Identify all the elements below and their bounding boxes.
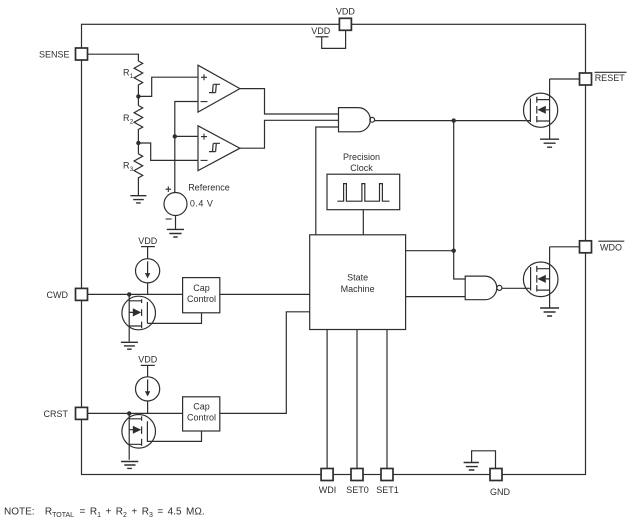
svg-text:Machine: Machine	[341, 284, 375, 294]
svg-text:SENSE: SENSE	[39, 49, 70, 59]
wire U2 output to NAND1 input 2	[240, 120, 339, 148]
svg-text:3: 3	[130, 166, 134, 173]
wire RESET pin to Q1 drain	[550, 78, 580, 80]
pin WDI	[321, 469, 333, 481]
ground below Q2	[540, 308, 559, 316]
pin SET0	[351, 469, 363, 481]
svg-text:VDD: VDD	[138, 236, 158, 246]
internal ground symbol near GND pin	[464, 463, 479, 471]
node junction reset line	[452, 118, 456, 122]
ground below Q1	[540, 139, 559, 147]
svg-text:SET1: SET1	[376, 485, 399, 495]
wire cap control 1 to state machine	[220, 293, 310, 295]
svg-text:Control: Control	[187, 294, 216, 304]
wire NAND2 output to Q2 gate	[502, 287, 530, 289]
pin SENSE	[76, 48, 88, 60]
wire internal ground to GND pin	[472, 451, 496, 469]
pin SET1	[381, 469, 393, 481]
pin GND	[490, 469, 502, 481]
svg-text:1: 1	[130, 73, 134, 80]
pin WDO	[580, 241, 592, 253]
current source I1	[136, 259, 160, 283]
wire state machine to SET1 pin	[386, 330, 388, 469]
svg-text:2: 2	[130, 119, 134, 126]
node junction reference to U2 +	[173, 134, 177, 138]
svg-text:SET0: SET0	[346, 485, 369, 495]
svg-text:State: State	[347, 272, 368, 282]
wire clock to state machine	[362, 210, 364, 235]
resistor R1	[134, 61, 143, 96]
op-amp U2 comparator	[198, 126, 240, 171]
ground below Q3	[121, 342, 138, 349]
transistor Q4 CRST MOSFET	[122, 415, 156, 449]
wire NAND1 third input from state machine	[316, 127, 339, 235]
wire SENSE to R1	[88, 54, 139, 61]
wire I1 to CWD node	[147, 283, 149, 295]
wire junction to state machine	[406, 250, 454, 252]
wire WDO pin to Q2 drain	[550, 246, 580, 248]
svg-text:VDD: VDD	[311, 26, 331, 36]
wire state machine to WDI pin	[326, 330, 328, 469]
resistor R3	[134, 154, 143, 196]
clock waveform	[337, 184, 389, 202]
wire U1 output to NAND1 input 1	[240, 89, 339, 114]
node junction CRST	[127, 411, 131, 415]
wire junction down to NAND2 input 1	[454, 251, 466, 279]
node junction R2/R3 tap	[136, 141, 140, 145]
transistor Q1 RESET MOSFET	[524, 93, 558, 127]
wire cap control 2 to state machine	[220, 312, 310, 414]
wire VDD to current source I2	[147, 365, 149, 376]
ground below R3	[130, 196, 146, 203]
svg-text:CWD: CWD	[47, 290, 69, 300]
svg-text:Precision: Precision	[343, 152, 380, 162]
wire VDD net to VDD pin	[322, 30, 346, 48]
svg-text:WDI: WDI	[319, 485, 337, 495]
svg-text:VDD: VDD	[336, 7, 356, 17]
wire reset line down to state machine feed	[453, 121, 455, 251]
resistor R2	[134, 106, 143, 144]
wire tap2 to comparator U2 - input	[138, 143, 198, 160]
ground below Q4	[121, 462, 138, 469]
state machine block	[310, 235, 406, 330]
transistor Q3 CWD MOSFET	[122, 296, 156, 330]
svg-text:GND: GND	[490, 487, 511, 497]
wire tap2 to R3	[137, 143, 139, 154]
op-amp U1 comparator	[198, 65, 240, 112]
precision clock block	[327, 174, 400, 210]
svg-text:RESET: RESET	[595, 73, 626, 83]
svg-text:Cap: Cap	[193, 402, 210, 412]
wire NAND1 output to Q1 gate	[375, 120, 531, 122]
svg-text:NOTE:: NOTE:	[4, 507, 35, 518]
NAND gate G2	[465, 276, 497, 300]
wire CWD pin to Cap Control 1	[88, 293, 183, 295]
svg-text:Reference: Reference	[188, 183, 230, 193]
wire state machine to SET0 pin	[356, 330, 358, 469]
svg-text:Cap: Cap	[193, 283, 210, 293]
cap control block 1	[183, 278, 220, 313]
ground below reference	[167, 229, 184, 237]
node junction state machine feed	[452, 249, 456, 253]
reference source 0.4V	[164, 193, 187, 216]
pin VDD	[339, 18, 351, 30]
pin CRST	[76, 407, 88, 419]
pin CWD	[76, 288, 88, 300]
svg-text:RTOTAL = R1 + R2 + R3 = 4.5 MΩ: RTOTAL = R1 + R2 + R3 = 4.5 MΩ.	[45, 507, 205, 520]
svg-text:0.4 V: 0.4 V	[190, 198, 214, 208]
wire I2 to CRST node	[147, 401, 149, 413]
node junction R1/R2 tap	[136, 94, 140, 98]
wire reference net to U1 - and U2 +	[175, 102, 198, 193]
svg-text:WDO: WDO	[600, 242, 622, 252]
wire cap control 1 to Q3 gate	[147, 313, 201, 324]
node junction CWD	[127, 292, 131, 296]
svg-text:CRST: CRST	[44, 409, 69, 419]
wire cap control 2 to Q4 gate	[147, 431, 201, 441]
svg-text:VDD: VDD	[138, 355, 158, 365]
wire tap1 to R2	[137, 96, 139, 105]
current source I2	[136, 377, 160, 401]
IC boundary	[82, 24, 586, 474]
wire CRST pin to Cap Control 2	[88, 412, 183, 414]
wire reference to ground	[175, 216, 177, 230]
svg-text:Control: Control	[187, 413, 216, 423]
wire tap1 to comparator U1 + input	[138, 77, 198, 96]
cap control block 2	[183, 397, 220, 431]
NAND gate G1	[339, 108, 371, 132]
transistor Q2 WDO MOSFET	[523, 262, 558, 297]
svg-text:Clock: Clock	[350, 163, 373, 173]
pin RESET	[580, 73, 592, 85]
wire VDD to current source I1	[147, 247, 149, 259]
wire state machine to NAND2 input 2	[406, 296, 466, 298]
